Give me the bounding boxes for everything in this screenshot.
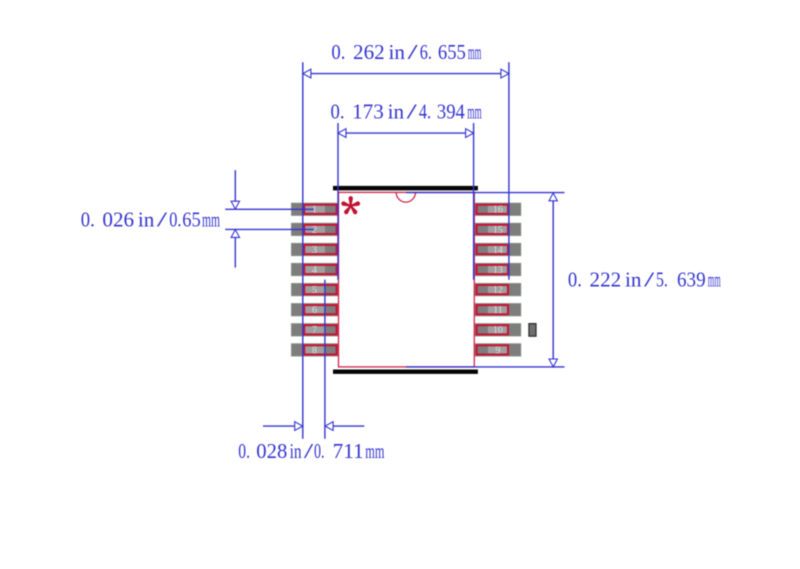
svg-text:0.: 0. xyxy=(81,207,95,231)
svg-text:0.: 0. xyxy=(331,40,345,64)
pad 10 (right) xyxy=(475,324,521,337)
pitch dimension leader lower xyxy=(231,230,239,268)
pad 7 (left) xyxy=(291,324,338,337)
svg-text:4: 4 xyxy=(312,265,317,276)
extension line body left (x=338) xyxy=(337,123,339,280)
dimension line 0.222in body height xyxy=(549,193,557,367)
origin marker rectangle xyxy=(529,324,536,337)
pad 3 (left) xyxy=(291,243,338,256)
IC body outline xyxy=(339,192,475,367)
svg-text:10: 10 xyxy=(493,325,503,336)
svg-text:in: in xyxy=(388,100,405,124)
svg-text:639: 639 xyxy=(677,268,706,292)
svg-text:9: 9 xyxy=(495,345,500,356)
pad 12 (right) xyxy=(475,283,521,296)
dimension line 0.173in body width xyxy=(338,129,474,138)
svg-text:in: in xyxy=(290,439,302,463)
pin 1 center line xyxy=(225,208,313,210)
svg-text:/: / xyxy=(644,268,654,292)
svg-text:173: 173 xyxy=(352,100,384,124)
svg-text:1: 1 xyxy=(312,205,317,216)
svg-text:394: 394 xyxy=(437,100,465,124)
svg-text:16: 16 xyxy=(493,205,503,216)
svg-text:mm: mm xyxy=(365,439,384,463)
svg-text:6.: 6. xyxy=(420,40,432,64)
svg-text:in: in xyxy=(389,40,406,64)
svg-text:028: 028 xyxy=(256,439,287,463)
pad 1 (left) xyxy=(291,203,338,216)
pad 5 (left) xyxy=(291,283,338,296)
pad 6 (left) xyxy=(291,303,338,316)
svg-text:65: 65 xyxy=(182,207,201,231)
bottom mounting bar xyxy=(333,370,478,374)
svg-text:3: 3 xyxy=(312,245,317,256)
svg-text:in: in xyxy=(625,268,642,292)
extension line left (x=303) xyxy=(302,62,304,439)
svg-text:026: 026 xyxy=(102,207,134,231)
extension line (x=325) xyxy=(324,280,326,439)
dimension text 0.222in/5.639mm xyxy=(568,268,721,292)
extension line right (x=509) xyxy=(508,62,510,280)
pad 2 (left) xyxy=(291,223,338,236)
svg-text:0.: 0. xyxy=(169,207,181,231)
extension line body top (y=193) xyxy=(406,192,565,194)
svg-text:/: / xyxy=(304,439,313,463)
svg-text:12: 12 xyxy=(493,285,503,296)
svg-text:0.: 0. xyxy=(331,100,345,124)
svg-text:/: / xyxy=(407,100,417,124)
pad 13 (right) xyxy=(475,263,521,276)
svg-text:11: 11 xyxy=(493,305,503,316)
extension line body right (x=474) xyxy=(473,123,475,280)
svg-text:0.: 0. xyxy=(238,439,250,463)
svg-text:222: 222 xyxy=(590,268,622,292)
svg-text:0.: 0. xyxy=(568,268,582,292)
svg-text:14: 14 xyxy=(493,245,503,256)
svg-text:in: in xyxy=(138,207,155,231)
dimension text 0.026in/0.65mm xyxy=(81,207,220,231)
svg-text:7: 7 xyxy=(312,325,317,336)
pitch dimension leader upper xyxy=(231,170,239,209)
svg-text:6: 6 xyxy=(312,305,317,316)
svg-text:8: 8 xyxy=(312,345,317,356)
pin 2 center line xyxy=(225,228,313,230)
top mounting bar xyxy=(333,186,478,191)
pin length arrow left xyxy=(263,422,303,431)
svg-text:2: 2 xyxy=(312,225,317,236)
svg-text:mm: mm xyxy=(467,100,482,124)
pad 14 (right) xyxy=(475,243,521,256)
svg-text:13: 13 xyxy=(493,265,503,276)
svg-text:/: / xyxy=(408,40,418,64)
pin 1 marker asterisk xyxy=(341,196,360,214)
svg-text:262: 262 xyxy=(353,40,385,64)
dimension line 0.262in overall width xyxy=(303,69,509,78)
pad 4 (left) xyxy=(291,263,338,276)
pin 1 end notch (index semicircle) xyxy=(396,193,415,203)
svg-text:4.: 4. xyxy=(419,100,431,124)
svg-text:15: 15 xyxy=(493,225,503,236)
dimension text 0.262in/6.655mm xyxy=(331,40,481,64)
svg-text:5: 5 xyxy=(312,285,317,296)
svg-text:0.: 0. xyxy=(314,439,325,463)
pad 9 (right) xyxy=(475,344,521,357)
pin length arrow right xyxy=(325,422,364,431)
pad 16 (right) xyxy=(475,203,521,216)
pad 11 (right) xyxy=(475,303,521,316)
pad 8 (left) xyxy=(291,344,338,357)
extension line body bottom (y=367) xyxy=(406,366,565,368)
svg-text:mm: mm xyxy=(202,207,220,231)
svg-text:/: / xyxy=(157,207,167,231)
svg-text:5.: 5. xyxy=(656,268,668,292)
svg-text:mm: mm xyxy=(468,40,482,64)
svg-text:655: 655 xyxy=(438,40,466,64)
dimension text 0.173in/4.394mm xyxy=(331,100,482,124)
dimension text 0.028in/0.711mm xyxy=(238,439,384,463)
svg-text:mm: mm xyxy=(708,268,721,292)
pad 15 (right) xyxy=(475,223,521,236)
svg-text:711: 711 xyxy=(333,439,364,463)
